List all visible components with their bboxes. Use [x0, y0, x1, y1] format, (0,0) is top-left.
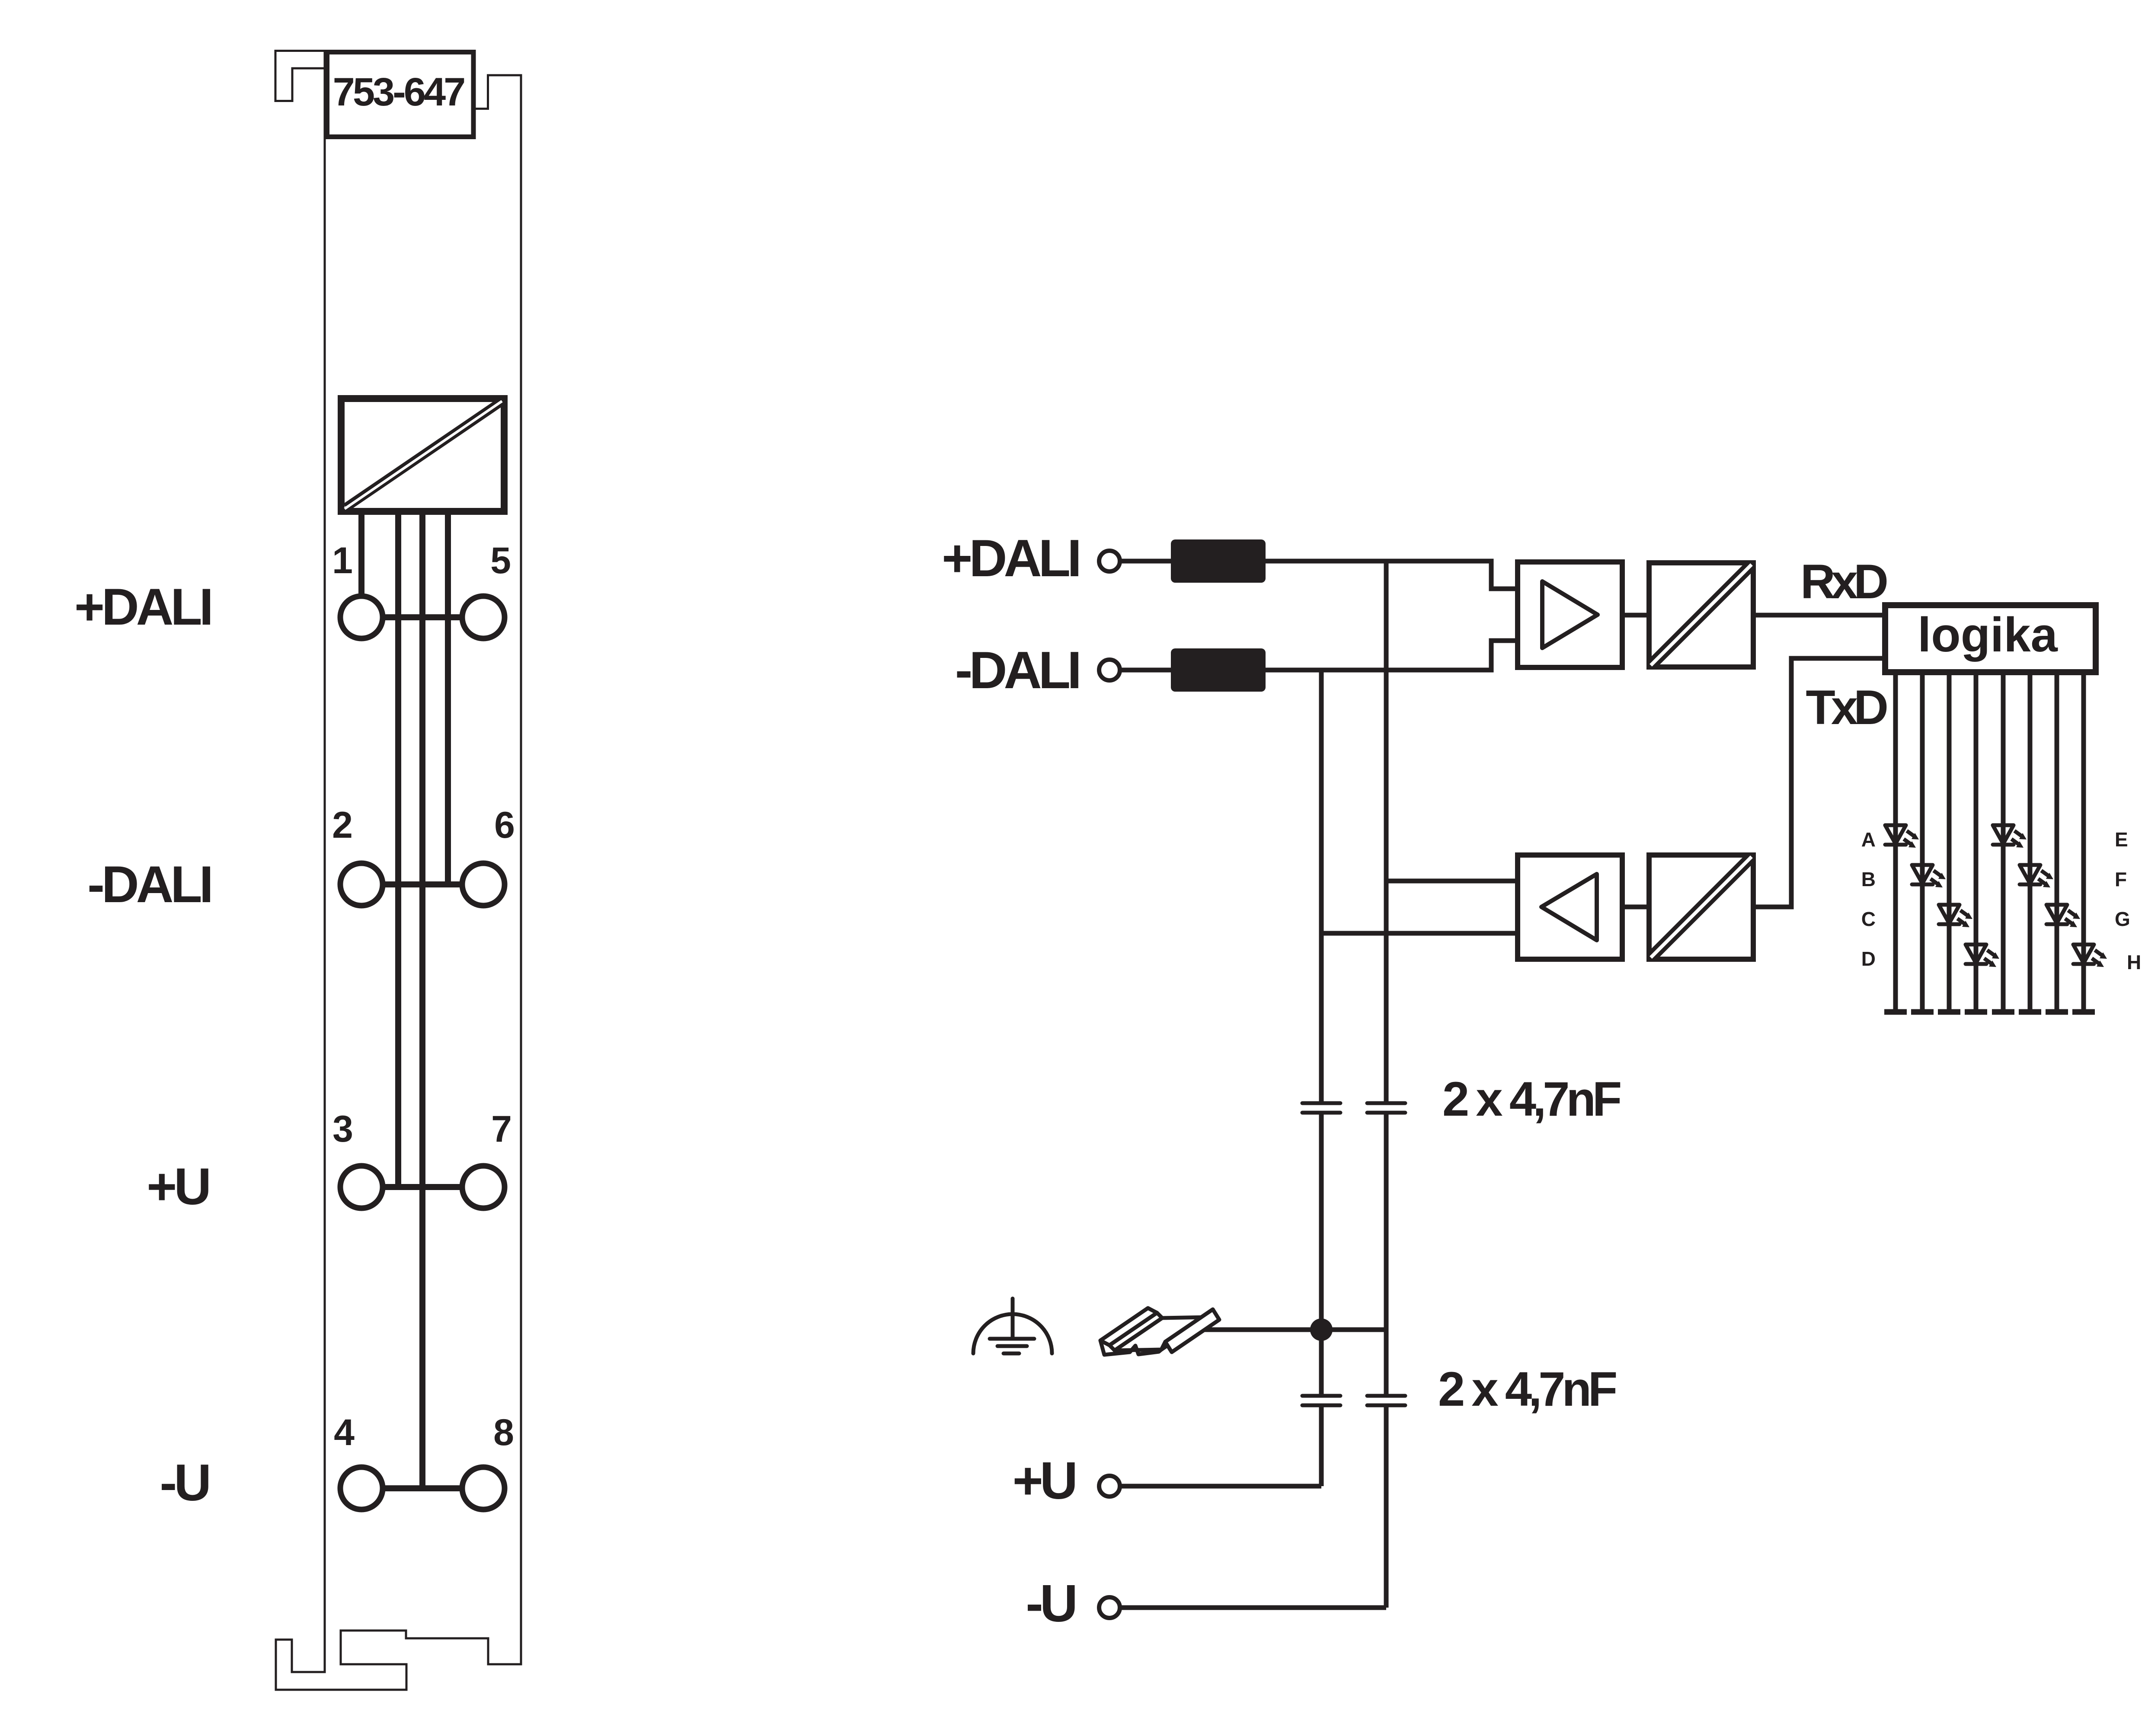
svg-text:-DALI: -DALI — [955, 641, 1078, 699]
LED F — [2020, 865, 2053, 887]
wire TxD return to lower buffer (upper) — [1386, 879, 1520, 884]
svg-text:G: G — [2115, 908, 2130, 930]
wire isolator U6 to buffer U4 — [1622, 905, 1649, 909]
wire -DALI branch: capacitor to earth junction to +U corner — [1319, 1114, 1324, 1486]
wire buffer U2 to isolator U3 — [1622, 613, 1649, 618]
svg-text:753-647: 753-647 — [333, 70, 464, 114]
capacitor C3 (between earth and +U) — [1302, 1396, 1340, 1405]
svg-text:8: 8 — [493, 1412, 514, 1453]
LED D — [1966, 945, 1999, 967]
+U input terminal — [1099, 1476, 1120, 1497]
LED C — [1939, 905, 1972, 927]
buffer U4 (TxD direction) — [1518, 855, 1622, 959]
LED E — [1993, 825, 2027, 848]
wire: supply to pin 1 — [358, 511, 364, 596]
choke filter L2 on -DALI — [1171, 648, 1266, 692]
DIN rail symbol — [1100, 1308, 1219, 1355]
wire logika output H — [2081, 673, 2086, 1010]
pin 7 terminal circle — [462, 1166, 505, 1208]
svg-text:B: B — [1861, 868, 1876, 890]
svg-text:7: 7 — [491, 1108, 512, 1150]
svg-text:-U: -U — [160, 1454, 208, 1512]
choke filter L1 on +DALI — [1171, 539, 1266, 583]
capacitor C1 (on -DALI branch) — [1302, 1103, 1340, 1113]
wire +DALI branch: capacitor to earth crossing to -U corner — [1384, 1114, 1389, 1608]
junction dot (earth / -DALI branch) — [1310, 1318, 1333, 1341]
power supply symbol U1 (module) — [341, 399, 504, 511]
svg-text:F: F — [2115, 868, 2127, 890]
buffer U2 (RxD direction) — [1518, 562, 1622, 667]
svg-text:+U: +U — [1013, 1451, 1075, 1510]
wire TxD: logika to isolator U6 — [1753, 658, 1885, 907]
wire: supply to pin row 4 — [419, 511, 425, 1488]
wire: pin3 to pin7 — [380, 1184, 464, 1190]
wire logika output D — [1974, 673, 1979, 1010]
pin 6 terminal circle — [462, 863, 505, 906]
wire +U terminal to -DALI branch corner — [1120, 1484, 1321, 1489]
pin 2 terminal circle — [340, 863, 383, 906]
dashed common return bus — [1884, 1009, 2095, 1015]
wire TxD return to lower buffer (lower) — [1321, 931, 1520, 936]
svg-text:H: H — [2127, 951, 2141, 973]
wire logika output F — [2028, 673, 2033, 1010]
+DALI input terminal — [1099, 551, 1120, 571]
LED B — [1912, 865, 1946, 887]
wire +DALI net to buffer input (with step) — [1120, 561, 1520, 589]
wire: pin1 to pin5 — [380, 614, 464, 620]
wire logika output G — [2055, 673, 2059, 1010]
capacitor C2 (on +DALI branch) — [1367, 1103, 1405, 1113]
svg-text:1: 1 — [332, 540, 353, 581]
svg-text:C: C — [1861, 908, 1876, 930]
svg-text:TxD: TxD — [1806, 680, 1887, 734]
-U input terminal — [1099, 1597, 1120, 1618]
wire -DALI net to buffer input (with step) — [1120, 641, 1520, 670]
svg-text:2 x 4,7nF: 2 x 4,7nF — [1438, 1362, 1616, 1416]
wire RxD: isolator U3 to logika — [1753, 613, 1885, 618]
pin 5 terminal circle — [462, 596, 505, 638]
svg-text:RxD: RxD — [1800, 555, 1887, 609]
module 753-647 body outline — [275, 51, 521, 1690]
svg-text:2 x 4,7nF: 2 x 4,7nF — [1442, 1072, 1621, 1126]
LED A — [1885, 825, 1919, 848]
pin 8 terminal circle — [462, 1467, 505, 1509]
pin 4 terminal circle — [340, 1467, 383, 1509]
wire: pin2 to pin6 — [380, 881, 464, 887]
isolation barrier U3 — [1649, 563, 1753, 667]
svg-text:logika: logika — [1918, 608, 2058, 662]
svg-text:+DALI: +DALI — [942, 529, 1078, 587]
wire logika output B — [1920, 673, 1925, 1010]
pin 1 terminal circle — [340, 596, 383, 638]
capacitor C4 (between earth and -U) — [1367, 1396, 1405, 1405]
svg-text:6: 6 — [494, 804, 515, 846]
module order-number label box — [327, 52, 474, 137]
logic block logika — [1885, 605, 2096, 672]
svg-text:+DALI: +DALI — [74, 578, 211, 636]
isolation barrier U6 (TxD path) — [1649, 855, 1753, 959]
wire -DALI branch down (node at x=3056) — [1319, 670, 1324, 1102]
svg-text:-U: -U — [1026, 1574, 1075, 1633]
svg-text:D: D — [1861, 948, 1876, 970]
-DALI input terminal — [1099, 660, 1120, 680]
wire logika output A — [1893, 673, 1898, 1010]
wire: supply to pin row 2 — [445, 511, 451, 884]
svg-text:4: 4 — [334, 1412, 355, 1453]
svg-text:3: 3 — [332, 1108, 353, 1150]
svg-text:5: 5 — [490, 540, 511, 581]
ground symbol — [973, 1299, 1052, 1353]
svg-text:-DALI: -DALI — [87, 855, 211, 913]
earth wire from DIN rail — [1199, 1328, 1386, 1332]
LED H — [2073, 945, 2107, 967]
wire -U terminal to +DALI branch corner — [1120, 1605, 1386, 1610]
wire +DALI branch down (node at x=3206) — [1384, 561, 1389, 1102]
svg-text:+U: +U — [147, 1158, 208, 1216]
svg-text:A: A — [1861, 828, 1876, 851]
LED G — [2046, 905, 2080, 927]
pin 3 terminal circle — [340, 1166, 383, 1208]
wire logika output E — [2001, 673, 2006, 1010]
wire logika output C — [1947, 673, 1952, 1010]
svg-text:E: E — [2115, 828, 2128, 851]
svg-text:2: 2 — [332, 804, 353, 846]
wire: supply to pin row 3 — [395, 511, 401, 1187]
wire: pin4 to pin8 — [380, 1485, 464, 1491]
